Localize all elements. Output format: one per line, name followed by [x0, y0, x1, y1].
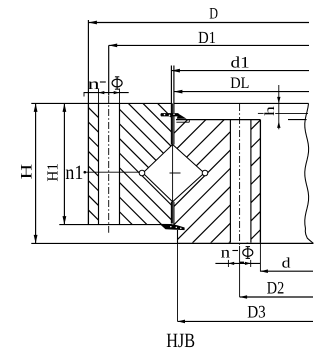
- svg-text:d: d: [282, 256, 291, 272]
- svg-text:h: h: [262, 105, 277, 116]
- svg-text:D3: D3: [247, 303, 266, 322]
- svg-text:HJB: HJB: [166, 329, 195, 352]
- svg-text:H1: H1: [45, 163, 61, 181]
- svg-text:n: n: [221, 245, 231, 262]
- svg-text:n1: n1: [65, 163, 83, 185]
- svg-text:n: n: [88, 76, 101, 93]
- svg-text:D2: D2: [267, 279, 284, 298]
- svg-text:DL: DL: [230, 75, 249, 92]
- svg-text:d1: d1: [231, 55, 250, 72]
- svg-text:D: D: [209, 5, 218, 22]
- svg-text:H: H: [19, 163, 36, 179]
- svg-text:D1: D1: [198, 29, 216, 47]
